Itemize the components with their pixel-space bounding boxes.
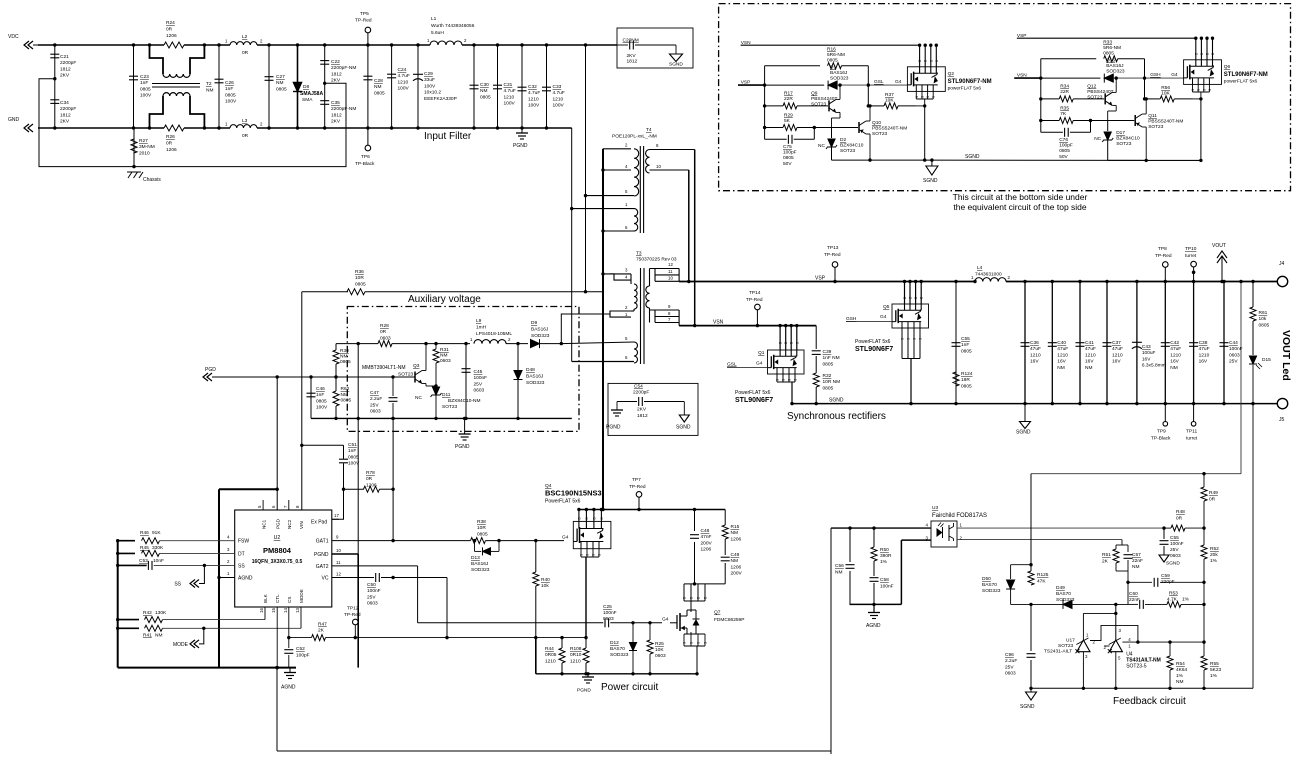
wire R16 down	[867, 66, 869, 106]
svg-text:TP12: TP12	[347, 606, 359, 612]
svg-text:100pF: 100pF	[783, 150, 797, 156]
svg-text:100V: 100V	[316, 405, 328, 411]
svg-text:D17: D17	[1116, 130, 1125, 136]
svg-text:powerFLAT 5x6: powerFLAT 5x6	[1224, 79, 1258, 85]
svg-text:BAS70: BAS70	[610, 646, 625, 652]
svg-text:4.7uF: 4.7uF	[553, 90, 565, 96]
svg-text:R35: R35	[1060, 106, 1069, 112]
svg-text:GSH: GSH	[1150, 72, 1161, 78]
T3 pins 2 1 bracket	[610, 311, 631, 317]
svg-text:R42: R42	[143, 610, 152, 616]
svg-text:4.7uF: 4.7uF	[504, 88, 516, 94]
capacitor C76	[1041, 131, 1063, 133]
svg-text:1210: 1210	[528, 96, 539, 102]
svg-text:0603: 0603	[380, 335, 391, 341]
capacitor C33	[546, 45, 548, 128]
wire opto pin2 row	[957, 539, 1122, 541]
svg-text:20k: 20k	[1210, 552, 1218, 558]
capacitor C75	[765, 138, 787, 140]
svg-text:16QFN_3X3X0.75_0.5: 16QFN_3X3X0.75_0.5	[252, 559, 303, 565]
svg-text:1206: 1206	[166, 147, 177, 153]
svg-text:TP-Red: TP-Red	[746, 297, 763, 303]
wire CS row long	[289, 637, 312, 639]
svg-text:NM: NM	[206, 88, 213, 94]
svg-text:1%: 1%	[1210, 673, 1218, 679]
svg-text:FSW: FSW	[238, 539, 249, 545]
svg-text:0R: 0R	[242, 133, 249, 139]
svg-text:47nF: 47nF	[701, 534, 712, 540]
svg-text:1210: 1210	[1057, 352, 1068, 358]
wire PGD column to PM8804 pin6	[276, 377, 278, 510]
svg-text:15: 15	[271, 608, 276, 613]
transistor Q7 FDMC86259P	[670, 622, 677, 624]
T4 core	[639, 146, 641, 233]
svg-text:R56: R56	[1161, 85, 1170, 91]
svg-text:This circuit at the bottom sid: This circuit at the bottom side under	[953, 192, 1088, 202]
svg-text:R33: R33	[1103, 40, 1112, 46]
testpoint TP11 turret	[1193, 404, 1195, 422]
svg-text:R44: R44	[545, 646, 554, 652]
svg-text:NC2: NC2	[287, 519, 292, 529]
resistor R44	[560, 636, 563, 639]
svg-text:14: 14	[283, 608, 288, 613]
wire led to feedback	[1252, 365, 1254, 688]
resistor R26	[164, 125, 184, 131]
wire aux rail	[336, 343, 378, 345]
svg-text:turret: turret	[1185, 253, 1197, 259]
svg-text:DT: DT	[238, 552, 245, 558]
svg-text:6.3x5.8mm: 6.3x5.8mm	[1142, 363, 1166, 369]
svg-text:PGD: PGD	[205, 367, 216, 373]
wire CTL column	[276, 607, 278, 668]
svg-text:BAS70: BAS70	[1056, 591, 1071, 597]
svg-text:STL90N6F7: STL90N6F7	[735, 397, 773, 404]
T3 winding A left	[634, 284, 637, 309]
wire GND rail	[38, 127, 164, 129]
diode D8 TVS	[297, 45, 299, 128]
svg-text:TP13: TP13	[827, 245, 839, 251]
svg-text:1210: 1210	[1170, 352, 1181, 358]
svg-text:0R: 0R	[242, 50, 249, 56]
svg-text:0603: 0603	[370, 409, 381, 415]
svg-text:C26: C26	[225, 80, 234, 86]
transistor Q11	[1134, 115, 1136, 126]
aux dashed box	[347, 307, 579, 432]
svg-text:C23: C23	[140, 74, 149, 80]
svg-text:R34: R34	[1060, 84, 1069, 90]
svg-text:2200pF: 2200pF	[60, 60, 76, 66]
T3 pins 3 4 bracket	[603, 274, 631, 280]
svg-text:100V: 100V	[348, 461, 360, 467]
svg-text:SGND: SGND	[1016, 430, 1031, 436]
svg-text:0805: 0805	[341, 398, 352, 404]
wire U4 right row	[1122, 641, 1204, 643]
svg-text:R15: R15	[731, 524, 740, 530]
svg-text:R27: R27	[139, 138, 148, 144]
capacitor C38	[1193, 282, 1195, 404]
svg-text:C30: C30	[480, 82, 489, 88]
svg-text:C38: C38	[1199, 340, 1208, 346]
svg-text:MODE: MODE	[173, 642, 189, 648]
svg-text:16V: 16V	[1199, 359, 1208, 365]
svg-text:STL90N6F7-NM: STL90N6F7-NM	[1224, 72, 1268, 78]
wire T3 1-2 to aux rail	[561, 314, 610, 344]
svg-text:VIN: VIN	[299, 521, 304, 529]
resistor R29	[765, 127, 783, 129]
wire AGND bus	[850, 603, 902, 605]
capacitor C35	[320, 100, 329, 102]
svg-text:C54: C54	[634, 384, 643, 390]
svg-text:1%: 1%	[880, 559, 888, 565]
svg-text:1nF: 1nF	[348, 448, 356, 454]
capacitor C20 snubber box	[617, 28, 693, 68]
svg-text:BAS16J: BAS16J	[1106, 63, 1124, 69]
svg-text:5R6-NM: 5R6-NM	[827, 52, 845, 58]
svg-text:100V: 100V	[225, 99, 237, 105]
svg-text:R37: R37	[885, 92, 894, 98]
svg-text:2KV: 2KV	[60, 119, 70, 125]
svg-text:T2: T2	[206, 81, 212, 87]
resistor R47	[312, 635, 326, 641]
svg-text:TP6: TP6	[361, 154, 370, 160]
capacitor C60	[1128, 603, 1138, 605]
svg-text:25V: 25V	[474, 381, 483, 387]
testpoint TP12	[354, 636, 357, 639]
svg-text:12: 12	[336, 572, 341, 577]
svg-text:C35: C35	[331, 100, 340, 106]
svg-text:R108: R108	[570, 646, 582, 652]
svg-text:SOT23: SOT23	[1087, 95, 1103, 101]
svg-text:1812: 1812	[331, 112, 342, 118]
capacitor C56	[848, 526, 851, 529]
svg-text:SOT23: SOT23	[1058, 643, 1074, 649]
svg-text:2200pF: 2200pF	[633, 390, 649, 396]
resistor R38	[471, 538, 486, 544]
resistor R24	[164, 42, 184, 48]
svg-text:C42: C42	[1170, 340, 1179, 346]
ground PGND input filter	[521, 128, 523, 133]
svg-text:1210: 1210	[1112, 352, 1123, 358]
T3 winding B left	[634, 342, 638, 363]
svg-text:SOD323: SOD323	[830, 75, 849, 81]
svg-text:10k: 10k	[1259, 316, 1267, 322]
svg-text:C49: C49	[731, 552, 740, 558]
T4 primary winding A	[634, 149, 639, 196]
resistor R35	[1041, 120, 1059, 122]
svg-text:1210: 1210	[1030, 352, 1041, 358]
svg-text:R55: R55	[1210, 661, 1219, 667]
capacitor C57	[1124, 554, 1133, 556]
svg-text:SOT23: SOT23	[872, 131, 888, 137]
svg-text:PBSS4240T: PBSS4240T	[811, 96, 837, 102]
svg-text:D9: D9	[531, 320, 537, 326]
svg-text:2K: 2K	[1102, 559, 1109, 565]
inductor L2	[230, 42, 257, 45]
svg-text:BSC190N15NS3: BSC190N15NS3	[545, 489, 602, 498]
svg-text:R47: R47	[318, 622, 327, 628]
svg-text:47uF: 47uF	[1057, 346, 1068, 352]
svg-text:C96: C96	[1005, 652, 1014, 658]
ic U2 PM8804	[235, 510, 332, 607]
svg-text:C55: C55	[1170, 535, 1179, 541]
resistor R40	[535, 541, 537, 572]
T4 primary winding B	[634, 209, 638, 231]
svg-text:R36: R36	[355, 269, 364, 275]
wire T4 pin8 to VSN	[694, 150, 696, 326]
svg-text:47uF: 47uF	[1085, 346, 1096, 352]
svg-text:C36: C36	[1030, 340, 1039, 346]
resistor R33	[1041, 58, 1096, 60]
svg-text:S: S	[683, 642, 687, 644]
svg-text:VSP: VSP	[815, 276, 826, 282]
svg-text:C50: C50	[367, 582, 376, 588]
svg-text:1%: 1%	[1176, 673, 1184, 679]
svg-text:220pF: 220pF	[1161, 579, 1175, 585]
svg-text:PBSS5240T-NM: PBSS5240T-NM	[1148, 119, 1183, 125]
svg-text:100V: 100V	[553, 103, 565, 109]
svg-text:100uF: 100uF	[1142, 350, 1156, 356]
capacitor C40	[1051, 282, 1053, 404]
capacitor C37	[1106, 282, 1108, 404]
wire VSN rail	[679, 325, 816, 327]
svg-text:0805: 0805	[348, 454, 359, 460]
svg-text:SS: SS	[174, 582, 181, 588]
svg-text:0R: 0R	[1209, 497, 1216, 503]
svg-text:VSN: VSN	[713, 320, 724, 326]
zener D17	[1107, 121, 1109, 132]
resistor R55	[1203, 642, 1205, 656]
svg-text:SGND: SGND	[669, 62, 683, 68]
svg-text:0603: 0603	[474, 388, 485, 394]
svg-text:TP8: TP8	[1158, 246, 1167, 252]
diode D1	[828, 81, 837, 89]
capacitor C55fb	[1163, 528, 1165, 539]
capacitor C28	[367, 45, 369, 128]
svg-text:1210: 1210	[1085, 352, 1096, 358]
svg-text:CS: CS	[287, 597, 292, 603]
svg-text:1210: 1210	[570, 658, 581, 664]
svg-text:BZX84C10: BZX84C10	[840, 143, 864, 149]
resistor R16	[765, 65, 820, 67]
svg-text:TP5: TP5	[360, 11, 369, 17]
svg-text:NM: NM	[1085, 365, 1092, 371]
svg-text:Q11: Q11	[1148, 113, 1157, 119]
svg-text:NM: NM	[276, 80, 283, 86]
svg-text:100V: 100V	[504, 101, 516, 107]
svg-text:1nF: 1nF	[225, 86, 233, 92]
resistor R42 row	[118, 619, 139, 621]
svg-text:G4: G4	[756, 361, 763, 367]
svg-text:Wurth 74439346056: Wurth 74439346056	[431, 23, 475, 29]
svg-text:TP14: TP14	[749, 290, 761, 296]
svg-text:PowerFLAT 5x6: PowerFLAT 5x6	[545, 499, 581, 505]
connector J5	[1277, 398, 1287, 408]
svg-text:SOD323: SOD323	[1056, 597, 1075, 603]
wire Q7 drain row	[691, 583, 725, 585]
capacitor C26	[218, 45, 220, 128]
svg-text:NM: NM	[440, 353, 447, 359]
svg-text:C48: C48	[701, 528, 710, 534]
wire outer bottom rail	[277, 750, 831, 752]
svg-text:S: S	[1191, 89, 1195, 91]
capacitor C55	[955, 282, 957, 404]
svg-text:TP-Black: TP-Black	[1151, 436, 1171, 442]
wire chassis loop	[53, 77, 56, 80]
svg-text:47uF: 47uF	[1170, 346, 1181, 352]
svg-text:1206: 1206	[731, 536, 742, 542]
svg-text:U2: U2	[274, 535, 281, 541]
svg-text:D12: D12	[610, 640, 619, 646]
svg-text:0805: 0805	[140, 86, 151, 92]
svg-text:L9: L9	[476, 318, 482, 324]
wire output sense vertical 1	[1240, 282, 1242, 474]
svg-text:1206: 1206	[701, 547, 712, 553]
svg-text:SOT23: SOT23	[1116, 141, 1132, 147]
svg-text:R16: R16	[827, 47, 836, 53]
svg-text:SMAJ58A: SMAJ58A	[300, 91, 323, 97]
svg-text:C24: C24	[398, 67, 407, 73]
svg-text:SOT23: SOT23	[1148, 124, 1164, 130]
resistor R49	[1203, 474, 1205, 487]
svg-text:SS: SS	[238, 564, 245, 570]
svg-text:100V: 100V	[398, 86, 410, 92]
capacitor C48	[694, 510, 696, 532]
connector J4	[1277, 276, 1287, 286]
ground SGND under C55fb	[1159, 555, 1169, 562]
resistor R50	[872, 526, 875, 529]
svg-text:0805: 0805	[961, 348, 972, 354]
ground SGND in C54 box	[683, 402, 685, 416]
svg-text:turret: turret	[1186, 436, 1198, 442]
diode D12	[631, 621, 634, 624]
svg-text:SGND: SGND	[923, 178, 938, 184]
svg-text:NM: NM	[480, 88, 487, 94]
svg-text:C43: C43	[1142, 344, 1151, 350]
T4 secondary winding	[646, 150, 650, 173]
svg-text:G4: G4	[562, 535, 569, 541]
wire U4 cathode column	[1114, 612, 1117, 615]
svg-text:S: S	[901, 338, 905, 340]
svg-text:91K: 91K	[152, 530, 161, 536]
svg-text:R26: R26	[166, 134, 175, 140]
wire U17 ref to U4 bracket	[1090, 625, 1138, 642]
svg-text:2K: 2K	[318, 628, 325, 634]
svg-text:STL90N6F7-NM: STL90N6F7-NM	[948, 79, 992, 85]
capacitor C31	[497, 45, 499, 128]
ground SGND feedback	[1030, 688, 1032, 692]
wire VC row	[332, 577, 358, 579]
svg-text:16V: 16V	[1142, 356, 1151, 362]
capacitor C42	[1164, 282, 1166, 404]
svg-text:1812: 1812	[627, 59, 638, 65]
ground PGND aux	[464, 418, 466, 434]
svg-text:D49: D49	[1056, 585, 1065, 591]
svg-text:TP11: TP11	[1186, 429, 1197, 435]
chassis ground	[127, 171, 141, 173]
svg-text:STL90N6F7: STL90N6F7	[855, 346, 893, 353]
svg-text:S: S	[1197, 89, 1201, 91]
svg-text:Auxiliary voltage: Auxiliary voltage	[408, 294, 481, 305]
svg-text:10: 10	[668, 276, 673, 281]
svg-text:C60: C60	[1129, 591, 1138, 597]
capacitor C49	[724, 539, 726, 555]
svg-text:C25: C25	[603, 604, 612, 610]
svg-text:2200pF-NM: 2200pF-NM	[331, 106, 356, 112]
svg-text:1nF NM: 1nF NM	[823, 355, 840, 361]
ground SGND in C20 box	[675, 45, 677, 54]
wire SGND rail to output	[792, 403, 1278, 405]
transistor Q2 mosfet	[919, 45, 921, 67]
svg-text:1nF: 1nF	[961, 342, 969, 348]
svg-text:GND: GND	[8, 117, 20, 123]
svg-text:NM: NM	[340, 354, 347, 360]
svg-text:22R: 22R	[1060, 89, 1069, 95]
svg-text:D13: D13	[471, 555, 480, 561]
svg-text:1210: 1210	[1199, 352, 1210, 358]
svg-text:10: 10	[336, 548, 341, 553]
wire VDC top rail	[38, 44, 164, 46]
resistor R32	[815, 356, 817, 373]
svg-text:MMBT3904LT1-NM: MMBT3904LT1-NM	[362, 365, 406, 371]
svg-text:1210: 1210	[398, 79, 409, 85]
svg-text:VOUT Led: VOUT Led	[1280, 330, 1292, 381]
svg-text:C53: C53	[139, 558, 148, 564]
svg-text:R38: R38	[477, 519, 486, 525]
diode D9	[531, 340, 540, 348]
svg-text:TP9: TP9	[1157, 429, 1166, 435]
svg-text:0805: 0805	[276, 86, 287, 92]
wire PGND pin bold drop	[332, 553, 358, 555]
svg-text:PGND: PGND	[577, 688, 591, 694]
T4 pin 4	[603, 169, 631, 171]
svg-text:R125: R125	[1037, 572, 1049, 578]
svg-text:C46: C46	[316, 386, 325, 392]
svg-text:C31: C31	[504, 82, 513, 88]
svg-text:330K: 330K	[152, 545, 164, 551]
svg-text:R51: R51	[1102, 552, 1111, 558]
svg-text:0805: 0805	[374, 90, 385, 96]
svg-text:TP-Red: TP-Red	[629, 484, 646, 490]
svg-text:12: 12	[668, 262, 673, 267]
svg-text:C34: C34	[60, 100, 69, 106]
svg-text:Fairchild FOD817AS: Fairchild FOD817AS	[932, 513, 987, 519]
svg-text:C28: C28	[374, 78, 383, 84]
svg-text:PowerFLAT 5x6: PowerFLAT 5x6	[735, 390, 771, 396]
svg-text:SOT23: SOT23	[442, 404, 458, 410]
wire left drop to bottom	[830, 528, 832, 754]
svg-text:BLK: BLK	[263, 593, 268, 603]
svg-text:25V: 25V	[1229, 359, 1238, 365]
svg-text:11: 11	[336, 560, 341, 565]
svg-text:100V: 100V	[424, 83, 436, 89]
shunt U4 TS431AILT	[1109, 640, 1122, 652]
svg-text:10R: 10R	[477, 525, 486, 531]
ground AGND feedback	[868, 612, 880, 614]
resistor R28	[378, 341, 392, 347]
svg-text:VC: VC	[322, 576, 329, 582]
svg-text:S: S	[794, 379, 798, 381]
wire MODE column	[300, 607, 302, 628]
svg-text:1206: 1206	[166, 33, 177, 39]
svg-text:BZX84C10-NM: BZX84C10-NM	[448, 398, 481, 404]
svg-text:NM: NM	[1176, 679, 1183, 685]
svg-text:S: S	[915, 96, 919, 98]
svg-text:TP10: TP10	[1185, 246, 1197, 252]
T4 pin 2	[603, 148, 631, 150]
svg-text:C55: C55	[961, 336, 970, 342]
svg-text:1812: 1812	[331, 71, 342, 77]
svg-text:22nF: 22nF	[1132, 558, 1143, 564]
